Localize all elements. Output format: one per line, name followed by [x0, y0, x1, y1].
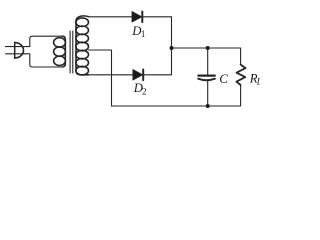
wire right vertical (D1/D2 cathode node) — [171, 17, 173, 75]
plug P1 — [6, 42, 25, 58]
wire secondary bottom to D2 — [89, 74, 134, 76]
wire D1 to right corner — [143, 16, 172, 18]
capacitor C bottom plate — [198, 79, 215, 81]
junction at vertical/bus — [170, 46, 174, 50]
svg-text:2: 2 — [142, 87, 147, 97]
resistor RL bottom lead — [240, 85, 242, 106]
diode D2 — [133, 70, 143, 81]
label D2 — [133, 81, 147, 96]
wire secondary top to D1 — [89, 16, 133, 18]
wire D2 to right vertical — [144, 74, 172, 76]
capacitor C bottom lead — [207, 81, 209, 106]
wire bottom rail — [112, 105, 241, 107]
svg-text:1: 1 — [141, 29, 146, 39]
resistor RL zigzag — [236, 65, 245, 85]
junction at capacitor top — [206, 46, 210, 50]
capacitor C top plate — [198, 74, 214, 76]
transformer core — [70, 31, 73, 73]
wire output bus to RL top — [172, 48, 241, 65]
diode D1 — [132, 12, 142, 23]
label RL — [249, 72, 262, 87]
wire plug to primary bottom — [24, 54, 62, 67]
svg-text:L: L — [256, 76, 260, 86]
capacitor C top lead — [207, 48, 209, 74]
wire center tap — [89, 50, 112, 106]
transformer T1 primary winding — [54, 36, 66, 67]
wire plug to primary top — [24, 36, 62, 46]
transformer T1 secondary winding — [76, 16, 89, 75]
junction at capacitor bottom — [206, 104, 210, 108]
label D1 — [131, 24, 145, 39]
svg-text:C: C — [219, 71, 228, 86]
